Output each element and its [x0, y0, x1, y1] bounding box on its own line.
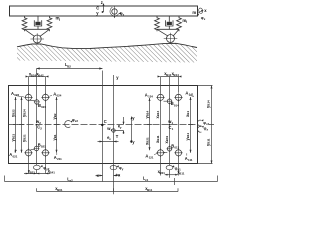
svg-text:x2: x2: [70, 178, 74, 182]
svg-text:T: T: [116, 134, 119, 139]
svg-text:124: 124: [148, 95, 153, 99]
svg-text:yB21: yB21: [21, 134, 26, 142]
svg-text:-y: -y: [131, 116, 135, 121]
svg-text:y: y: [120, 125, 122, 129]
svg-text:m: m: [192, 10, 196, 15]
svg-text:yB22: yB22: [10, 109, 15, 117]
svg-text:y: y: [116, 75, 119, 80]
svg-text:C: C: [104, 119, 107, 124]
svg-text:011: 011: [174, 146, 179, 150]
svg-text:y: y: [96, 10, 99, 15]
svg-text:+y: +y: [130, 140, 135, 145]
svg-text:x: x: [207, 128, 209, 132]
svg-text:B11: B11: [179, 171, 185, 175]
svg-text:xB01: xB01: [164, 136, 169, 144]
svg-text:024: 024: [57, 94, 62, 98]
svg-text:B11: B11: [147, 188, 153, 192]
svg-text:yB14: yB14: [144, 111, 149, 119]
svg-text:141: 141: [189, 93, 194, 97]
svg-text:1: 1: [172, 127, 174, 131]
svg-text:xB1: xB1: [185, 111, 190, 117]
svg-text:yB11: yB11: [205, 138, 210, 146]
svg-text:211: 211: [57, 157, 62, 161]
svg-text:024: 024: [41, 105, 46, 109]
svg-text:x2: x2: [75, 119, 79, 123]
svg-text:x1: x1: [206, 122, 210, 126]
svg-text:B14: B14: [174, 73, 180, 77]
svg-text:x: x: [204, 8, 207, 13]
svg-text:121: 121: [149, 156, 154, 160]
svg-text:x: x: [204, 17, 206, 21]
svg-text:022: 022: [14, 93, 19, 97]
svg-text:B01: B01: [160, 171, 166, 175]
svg-text:yB2: yB2: [52, 113, 57, 119]
svg-text:yB21: yB21: [10, 134, 15, 142]
svg-text:z: z: [101, 0, 103, 5]
svg-text:x1: x1: [145, 178, 149, 182]
svg-text:yB11: yB11: [185, 133, 190, 141]
svg-text:i: i: [59, 18, 60, 22]
svg-text:xB11: xB11: [155, 135, 160, 143]
svg-text:B41: B41: [50, 171, 56, 175]
svg-text:+x: +x: [116, 172, 121, 177]
svg-text:2: 2: [40, 127, 42, 131]
svg-text:y: y: [122, 167, 124, 171]
svg-text:014: 014: [174, 103, 179, 107]
svg-text:B01: B01: [57, 188, 63, 192]
svg-text:B2: B2: [67, 64, 71, 68]
svg-text:021: 021: [13, 154, 18, 158]
svg-text:yB14: yB14: [205, 100, 210, 108]
svg-text:xB21: xB21: [144, 137, 149, 145]
svg-text:111: 111: [188, 158, 193, 162]
svg-text:xB14: xB14: [155, 111, 160, 119]
svg-text:B42: B42: [38, 73, 44, 77]
svg-text:yB1: yB1: [52, 134, 57, 140]
svg-text:x: x: [109, 137, 111, 141]
svg-text:B21: B21: [30, 171, 36, 175]
svg-text:021: 021: [41, 145, 46, 149]
svg-text:yB24: yB24: [21, 109, 26, 117]
svg-text:i: i: [186, 20, 187, 24]
